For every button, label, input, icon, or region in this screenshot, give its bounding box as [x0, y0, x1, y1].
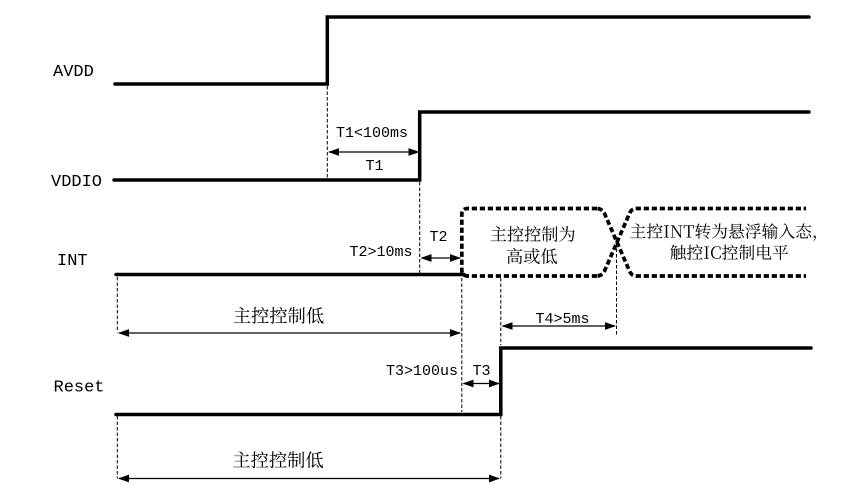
box INT host-driven state (dotted outline)	[462, 209, 597, 277]
guide dashed vertical at INT release point	[461, 278, 463, 412]
arrow T3 interval	[463, 380, 501, 388]
svg-text:T1<100ms: T1<100ms	[336, 125, 408, 142]
label 主控INT转为悬浮输入态， (box 2 line 1)	[630, 223, 816, 241]
guide dashed vertical below Reset rising edge	[500, 416, 502, 479]
guide dashed vertical at INT start	[116, 277, 118, 333]
arrow INT host-drive-low interval	[118, 329, 461, 337]
svg-text:T3>100us: T3>100us	[386, 363, 458, 380]
arrow T4 interval	[502, 322, 617, 330]
svg-text:T4>5ms: T4>5ms	[536, 311, 590, 328]
wire Reset trace (low, rising edge, high)	[116, 348, 811, 415]
arrow Reset host-drive-low interval	[118, 475, 500, 483]
svg-text:T3: T3	[473, 363, 491, 380]
arrow T1 interval	[328, 148, 420, 156]
wire INT low segment	[116, 273, 464, 277]
svg-text:AVDD: AVDD	[53, 63, 94, 82]
label 主控控制低 (Reset)	[233, 451, 323, 468]
guide dashed vertical at VDDIO rising edge	[419, 182, 421, 274]
svg-text:T2: T2	[430, 229, 448, 246]
guide dashed vertical at AVDD rising edge	[326, 86, 328, 179]
label 触控IC控制电平 (box 2 line 2)	[670, 245, 788, 260]
guide dashed vertical at Reset start	[116, 416, 118, 479]
svg-text:T2>10ms: T2>10ms	[350, 244, 413, 261]
arrow T2 interval	[421, 254, 462, 262]
wire INT crossover diagonal (rising) and floating-state top edge	[598, 209, 807, 277]
wire VDDIO trace (low, rising edge, high)	[114, 112, 809, 180]
label 高或低 (box 1 line 2)	[507, 248, 557, 264]
svg-text:Reset: Reset	[54, 379, 105, 398]
label 主控控制低 (INT)	[234, 307, 324, 324]
wire INT crossover diagonal (falling) and floating-state bottom edge	[598, 209, 807, 277]
svg-text:VDDIO: VDDIO	[51, 173, 102, 192]
svg-text:T1: T1	[366, 158, 384, 175]
guide dashed vertical at INT crossover	[616, 243, 618, 336]
label 主控控制为 (box 1 line 1)	[491, 226, 575, 242]
svg-text:INT: INT	[57, 252, 88, 271]
wire AVDD trace (low, rising edge, high)	[115, 17, 809, 84]
guide dashed vertical above Reset rising edge	[500, 278, 502, 345]
